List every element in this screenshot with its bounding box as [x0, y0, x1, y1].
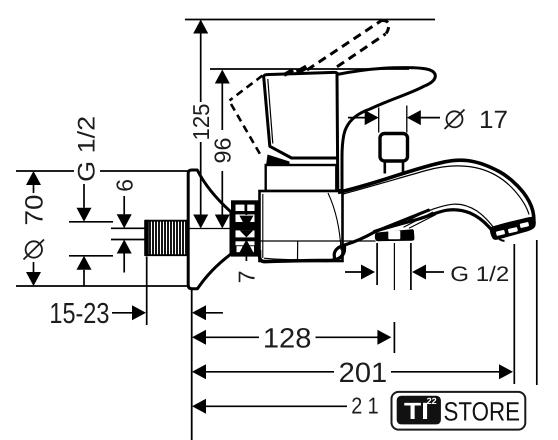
wall line — [16, 285, 188, 287]
handle base wedge — [266, 155, 290, 166]
dim 6 short lines — [111, 227, 146, 229]
skirt contour lines — [399, 210, 431, 226]
lever arm — [337, 68, 435, 191]
dim 96 vertical — [221, 84, 223, 131]
reference line 96 — [210, 68, 409, 70]
body cartridge collar — [266, 165, 337, 191]
G1/2 right — [345, 271, 362, 273]
diverter outlet nut under spout — [375, 229, 415, 241]
svg-text:201: 201 — [339, 357, 388, 388]
21x — [206, 405, 348, 407]
knob stem — [383, 162, 386, 174]
G1/2 left — [77, 208, 92, 222]
201 — [192, 364, 206, 379]
TI STORE logo — [392, 392, 526, 430]
spout underside inner contour — [412, 204, 496, 230]
svg-text:17: 17 — [479, 106, 508, 134]
centerline body axis — [260, 240, 376, 242]
arrows — [26, 20, 513, 414]
body inner contours — [263, 193, 341, 260]
svg-text:22: 22 — [427, 396, 437, 406]
aerator band at spout tip — [490, 217, 536, 240]
spout bottom sweep to body — [334, 232, 374, 260]
label dia 17 — [445, 110, 465, 130]
threaded wall pipe G1/2 — [144, 220, 190, 256]
centerline wall axis — [188, 228, 260, 230]
96 up — [215, 70, 230, 84]
15-23 — [132, 305, 146, 320]
svg-text:125: 125 — [188, 104, 214, 141]
dim 7 shafts — [245, 204, 247, 215]
svg-text:70: 70 — [21, 195, 49, 226]
top reference line 125 — [185, 19, 435, 21]
union nut (S-connector) — [231, 200, 259, 256]
svg-text:128: 128 — [263, 323, 312, 354]
escutcheon (wall rosette) — [188, 170, 231, 289]
svg-text:6: 6 — [112, 179, 138, 192]
G1/2 right — [361, 265, 375, 280]
dim 7 — [239, 216, 253, 229]
diverter knob — [380, 134, 408, 162]
dashed lever (raised position) — [307, 20, 389, 70]
dia70 top line — [16, 170, 74, 172]
dia17 — [348, 117, 365, 119]
spout underside edge — [374, 210, 498, 235]
svg-text:STORE: STORE — [444, 396, 521, 426]
svg-text:15-23: 15-23 — [49, 298, 109, 330]
201 — [206, 371, 335, 373]
spout skirt diagonal — [374, 210, 430, 232]
dia70 vertical shafts — [33, 185, 35, 193]
svg-text:2 1: 2 1 — [351, 393, 379, 419]
svg-text:TI: TI — [404, 398, 429, 424]
15-23 — [112, 312, 133, 314]
dashed handle skirt (raised position) — [230, 76, 263, 158]
svg-text:G 1/2: G 1/2 — [74, 116, 101, 182]
svg-text:G 1/2: G 1/2 — [450, 263, 509, 286]
svg-text:96: 96 — [210, 138, 236, 164]
G1/2 left short lines — [69, 221, 113, 223]
128 — [206, 336, 260, 338]
main face extension — [191, 289, 193, 440]
pivot nubs on handle top — [284, 70, 293, 75]
dia70 — [26, 171, 41, 185]
dia17 — [365, 110, 379, 125]
125 up — [193, 20, 208, 34]
21x — [192, 399, 206, 414]
125 down / 96 down at axis — [193, 215, 208, 229]
svg-text:7: 7 — [234, 270, 260, 283]
128 — [192, 330, 206, 345]
handle cup (lever base) — [264, 72, 338, 158]
body bottom thick edge — [260, 244, 345, 262]
spout top edge — [338, 160, 534, 221]
dim 125 vertical — [200, 34, 202, 103]
spout top inner contour — [343, 166, 529, 215]
dim 6 — [117, 214, 132, 228]
faucet body — [260, 191, 343, 261]
